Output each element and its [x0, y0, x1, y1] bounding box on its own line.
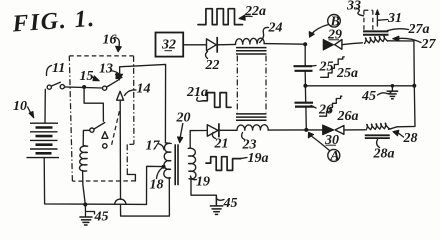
svg-text:A: A — [329, 149, 339, 164]
svg-text:22: 22 — [205, 58, 220, 73]
svg-text:25: 25 — [319, 60, 334, 75]
svg-text:24: 24 — [268, 21, 283, 36]
svg-text:11: 11 — [52, 61, 65, 76]
svg-text:19a: 19a — [248, 151, 269, 166]
svg-text:19: 19 — [196, 175, 210, 190]
svg-text:28: 28 — [403, 131, 418, 146]
svg-text:26a: 26a — [337, 109, 359, 124]
svg-text:45: 45 — [223, 196, 238, 211]
svg-text:10: 10 — [13, 99, 27, 114]
svg-text:16: 16 — [103, 33, 117, 48]
svg-text:27a: 27a — [408, 22, 430, 37]
svg-text:13: 13 — [99, 62, 113, 77]
svg-text:26: 26 — [318, 103, 333, 118]
svg-text:25a: 25a — [336, 66, 358, 81]
svg-text:17: 17 — [146, 139, 161, 154]
svg-text:27: 27 — [421, 37, 437, 52]
svg-text:28a: 28a — [373, 147, 395, 162]
svg-text:31: 31 — [387, 11, 402, 26]
svg-text:30: 30 — [324, 133, 339, 148]
svg-text:45: 45 — [361, 89, 376, 104]
svg-text:45: 45 — [94, 210, 109, 225]
svg-text:18: 18 — [150, 178, 164, 193]
svg-text:14: 14 — [137, 82, 151, 97]
